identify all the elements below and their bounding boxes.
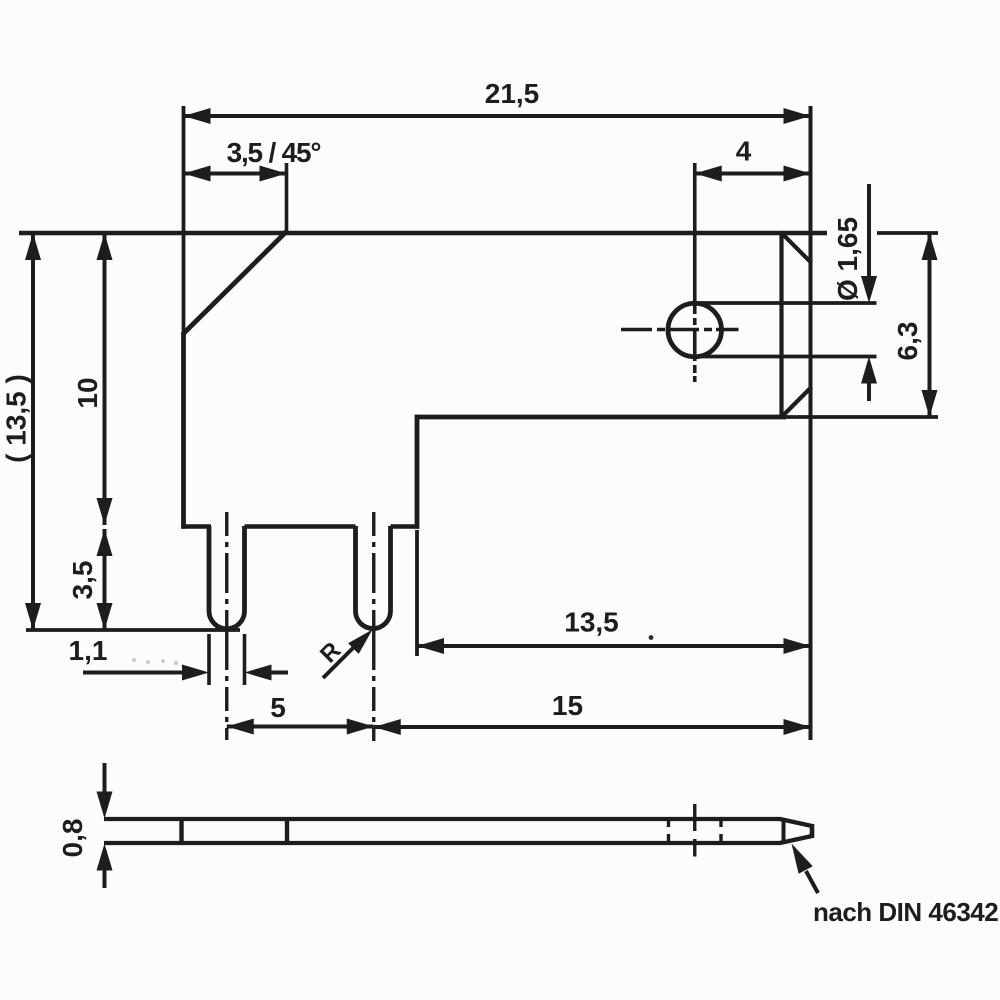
arrow up of dim (13,5): [25, 233, 41, 260]
extension line / top edge (y=233): [19, 231, 827, 235]
side view bottom edge with extension: [104, 841, 781, 845]
left edge extension for dim 21,5: [182, 106, 186, 333]
hole circle: [668, 303, 722, 357]
arrow left of dim 13,5: [417, 638, 444, 654]
step edge vertical: [415, 415, 420, 529]
svg-text:5: 5: [270, 692, 286, 723]
arrow right of dim 13,5: [784, 638, 811, 654]
dimension 0,8 lower line: [103, 869, 107, 888]
side view center line lower: [693, 839, 696, 857]
edge between legs: [245, 524, 356, 528]
dim line upper of hole dia: [867, 184, 871, 280]
dimension 21,5 line: [184, 114, 811, 118]
tab tip edge + extension line for dims: [809, 106, 813, 740]
arrow down of dim 3,5: [97, 603, 113, 630]
dimension 5 line: [227, 725, 374, 729]
side view tip blunt face: [810, 824, 815, 838]
side view tip base bar: [782, 820, 786, 842]
hole horizontal center line: [621, 328, 739, 331]
arrow down of dim (13,5): [25, 603, 41, 630]
bottom-left edge: [181, 524, 211, 528]
svg-text:1,1: 1,1: [69, 635, 108, 666]
svg-text:nach DIN 46342: nach DIN 46342: [813, 897, 998, 927]
arrow left of dim 15: [374, 719, 401, 735]
arrow right of dim 5: [347, 719, 374, 735]
arrow down of dim 0,8: [97, 792, 113, 819]
center line leg 2: [372, 512, 375, 741]
arrow right of dim 3,5/45: [260, 166, 287, 182]
arrow right of dim 4: [784, 166, 811, 182]
chamfer bottom-right of tab: [781, 387, 812, 418]
arrow left of dim 3,5/45: [184, 166, 211, 182]
svg-text:0,8: 0,8: [57, 819, 88, 858]
extension line leg1 right for dim 1,1: [243, 634, 247, 685]
svg-text:21,5: 21,5: [485, 78, 540, 109]
extension line 6,3 bottom: [786, 415, 938, 419]
artifact dot near 13,5: [649, 635, 654, 640]
svg-text:15: 15: [552, 690, 583, 721]
dimension 13,5 line: [417, 644, 811, 648]
arrow left of dim 5: [227, 719, 254, 735]
svg-text:4: 4: [736, 136, 752, 167]
dimension 1,1 left line: [83, 671, 185, 675]
side view hidden hole edge left: [667, 818, 670, 844]
leg 2 outline: [356, 526, 391, 629]
arrow up of dim 10: [97, 233, 113, 260]
svg-text:3,5 / 45°: 3,5 / 45°: [227, 137, 321, 168]
chamfer top-left 3,5/45: [184, 232, 287, 334]
dimension 3,5 line: [103, 529, 107, 630]
center line leg 1: [225, 512, 228, 740]
svg-text:( 13,5 ): ( 13,5 ): [1, 374, 32, 463]
tab base vertical line: [779, 231, 783, 419]
dimension 15 line: [374, 725, 811, 729]
arrow down of dim 10: [97, 498, 113, 525]
arrow down of dim 6,3: [922, 390, 938, 417]
arrow right of dim 21,5: [784, 108, 811, 124]
dimension 6,3 line: [928, 233, 932, 417]
arrow up of dim 3,5: [97, 529, 113, 556]
dim line lower of hole dia: [867, 380, 871, 401]
faint artifact dots: [132, 658, 136, 662]
edge right of leg 2: [391, 524, 420, 528]
side view center line upper: [693, 804, 696, 831]
leg 1 outline: [209, 526, 245, 629]
dimension (13,5) line: [31, 233, 35, 630]
hole bottom tangent extension line: [695, 355, 877, 359]
side view divider at chamfer extent: [285, 819, 289, 843]
hole vertical extension line for dim 4: [693, 163, 697, 314]
dimension 3,5/45 line: [184, 172, 287, 176]
arrow up of dim 0,8: [97, 844, 113, 871]
arrow right of dim 15: [784, 719, 811, 735]
extension line leg1 left for dim 1,1: [207, 634, 211, 685]
side view tip chamfer top: [780, 819, 812, 826]
DIN callout leader line: [806, 871, 818, 893]
svg-text:6,3: 6,3: [892, 322, 923, 361]
arrow left of dim 1,1: [245, 665, 272, 681]
svg-text:10: 10: [72, 377, 103, 408]
svg-text:3,5: 3,5: [67, 561, 98, 600]
extension line chamfer corner: [285, 163, 289, 233]
side view top edge with extension: [104, 817, 781, 821]
dimension 4 line: [695, 172, 811, 176]
hole vertical center line lower: [693, 318, 697, 382]
svg-text:13,5: 13,5: [564, 607, 619, 638]
extension line bottom-left (leg bottoms): [26, 628, 240, 632]
left edge of part: [181, 332, 186, 529]
svg-text:Ø 1,65: Ø 1,65: [832, 217, 863, 301]
dimension 10 line: [103, 233, 107, 525]
tab bottom edge: [415, 415, 786, 420]
DIN callout arrowhead: [792, 844, 813, 874]
dimension 0,8 upper line: [103, 763, 107, 794]
arrow left of dim 21,5: [184, 108, 211, 124]
side view tip chamfer bottom: [780, 836, 812, 843]
arrow up hole dia: [861, 357, 877, 384]
side view hidden hole edge right: [719, 818, 722, 844]
arrow left of dim 4: [695, 166, 722, 182]
R radius leader line: [323, 641, 360, 678]
R leader arrowhead: [348, 630, 372, 654]
chamfer top-right of tab: [781, 232, 812, 263]
hole top tangent extension line: [695, 301, 877, 305]
extension line step for dim 13,5: [415, 530, 419, 656]
extension line 6,3 top right of text: [877, 231, 938, 235]
arrow down hole dia: [861, 276, 877, 303]
side view left end: [179, 819, 183, 843]
arrow up of dim 6,3: [922, 233, 938, 260]
arrow right of dim 1,1: [182, 665, 209, 681]
dimension 1,1 right line: [268, 671, 288, 675]
